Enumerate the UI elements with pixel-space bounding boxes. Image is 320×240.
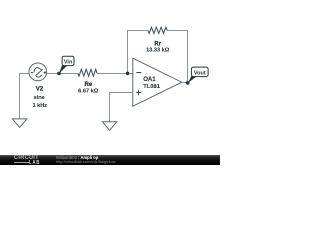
node dot output junction (186, 81, 190, 85)
wire resistor Re to junction and op-amp minus input (97, 73, 133, 75)
op-amp plus sign (non-inverting input) (136, 92, 141, 94)
wire op-amp plus input to corner and down (110, 93, 133, 122)
ground (left, below V2) (12, 119, 27, 128)
node dot Vin junction (57, 72, 61, 76)
svg-text:Vout: Vout (194, 70, 206, 76)
resistor Re zigzag (78, 69, 97, 76)
ground (below op-amp plus input) (102, 122, 116, 131)
wire feedback right vertical to output node (187, 31, 189, 83)
svg-text:Vin: Vin (64, 59, 73, 65)
svg-text:sine: sine (34, 95, 45, 101)
voltage source V2 circle (29, 63, 47, 81)
svg-text:6.67 kΩ: 6.67 kΩ (78, 88, 99, 94)
svg-text:V2: V2 (36, 87, 44, 93)
wire feedback top left segment (127, 30, 148, 32)
flag Vin tail (59, 65, 67, 74)
bottom attribution bar (0, 155, 220, 165)
op-amp U1 triangle (133, 58, 182, 106)
op-amp minus sign (inverting input) (136, 72, 141, 74)
svg-text:13.33 kΩ: 13.33 kΩ (146, 48, 170, 54)
svg-text:Rr: Rr (154, 42, 161, 48)
wire from V2 left terminal to corner (20, 74, 30, 119)
svg-text:TL081: TL081 (143, 84, 161, 90)
flag Vout tail (188, 76, 197, 83)
V2 plus sign (44, 72, 47, 74)
wire node Vin to resistor Re (59, 73, 78, 75)
svg-text:Re: Re (84, 82, 92, 88)
wire V2 right terminal to node Vin (47, 73, 59, 75)
flag Vout box (191, 67, 208, 77)
node dot inverting input junction (126, 72, 130, 76)
wire op-amp output lead (182, 82, 188, 84)
V2 minus sign (31, 72, 33, 74)
V2 sine squiggle (34, 68, 42, 78)
wire feedback left vertical (127, 31, 129, 74)
svg-text:1 kHz: 1 kHz (32, 103, 47, 109)
resistor Rr zigzag (148, 27, 167, 33)
wire feedback top right segment (167, 30, 188, 32)
flag Vin box (62, 56, 74, 65)
svg-text:OA1: OA1 (143, 77, 156, 83)
